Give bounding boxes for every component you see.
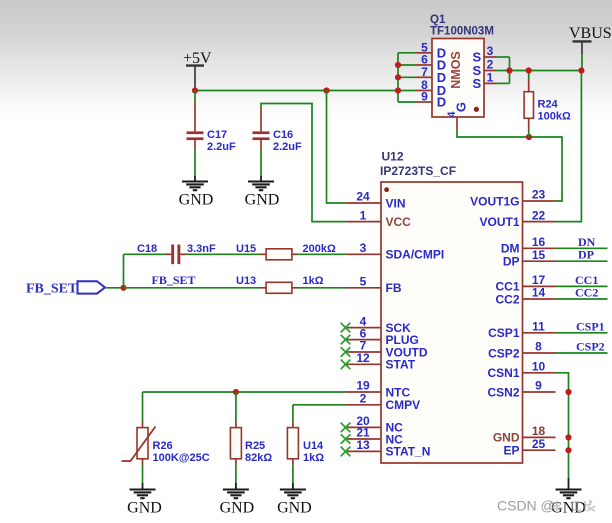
junction EP pin xyxy=(565,447,571,453)
svg-text:CC2: CC2 xyxy=(495,292,519,306)
wire VIN branch xyxy=(327,91,347,204)
svg-text:200kΩ: 200kΩ xyxy=(303,243,336,255)
wire R26 to GND xyxy=(142,465,144,483)
svg-text:U12: U12 xyxy=(382,150,404,164)
wire CC2 net xyxy=(556,286,608,300)
U12 pin 25 EP xyxy=(503,437,555,458)
U12 pin 21 NC xyxy=(346,426,403,447)
svg-text:S: S xyxy=(473,76,482,91)
wire FB_SET branch up xyxy=(123,254,125,287)
junction +5V xyxy=(192,87,198,93)
wire U15 to pin3 xyxy=(298,253,346,255)
U12 pin 11 CSP1 xyxy=(488,320,555,341)
svg-text:1kΩ: 1kΩ xyxy=(303,275,324,287)
wire Q1 drain bus xyxy=(398,53,416,102)
junction VBUS xyxy=(578,67,584,73)
svg-text:13: 13 xyxy=(356,438,370,452)
svg-text:IP2723TS_CF: IP2723TS_CF xyxy=(380,164,456,178)
svg-text:2.2uF: 2.2uF xyxy=(273,141,302,153)
U12 pin 1 VCC xyxy=(346,208,411,229)
svg-text:2: 2 xyxy=(487,58,494,72)
U12 pin 6 PLUG xyxy=(346,326,419,347)
svg-text:8: 8 xyxy=(535,340,542,354)
resistor U15 200k xyxy=(236,243,336,260)
power VBUS symbol xyxy=(569,25,612,54)
svg-text:U15: U15 xyxy=(236,243,256,255)
wire C18 to U15 xyxy=(187,253,261,255)
svg-text:FB_SET: FB_SET xyxy=(26,282,78,297)
svg-text:5: 5 xyxy=(360,275,367,289)
U12 pin 10 CSN1 xyxy=(487,360,555,381)
U12 pin 8 CSP2 xyxy=(488,340,555,361)
svg-text:100K@25C: 100K@25C xyxy=(153,452,210,464)
svg-text:3: 3 xyxy=(487,44,494,58)
capacitor C17 2.2uF xyxy=(187,91,237,154)
svg-text:U14: U14 xyxy=(303,440,324,452)
svg-text:82kΩ: 82kΩ xyxy=(245,452,272,464)
wire VBUS down to VOUT1 xyxy=(556,54,583,222)
wire U14 to GND xyxy=(292,465,294,483)
U12 pin 9 CSN2 xyxy=(487,379,555,400)
wire to C18 xyxy=(124,253,166,255)
svg-text:CMPV: CMPV xyxy=(386,398,421,412)
svg-text:16: 16 xyxy=(532,235,546,249)
svg-text:DP: DP xyxy=(578,248,594,262)
svg-text:CSP2: CSP2 xyxy=(488,346,520,360)
svg-text:D: D xyxy=(437,95,446,110)
svg-text:2: 2 xyxy=(360,392,367,406)
svg-text:9: 9 xyxy=(421,90,428,104)
resistor U13 1k xyxy=(236,275,324,293)
svg-text:DP: DP xyxy=(503,255,520,269)
wire C17 to GND xyxy=(194,150,196,176)
junction R24 bottom xyxy=(526,134,532,140)
U12 pin 3 SDA/CMPI xyxy=(346,241,444,262)
svg-text:VIN: VIN xyxy=(386,196,406,210)
junction GND pin xyxy=(565,434,571,440)
svg-text:FB: FB xyxy=(386,281,402,295)
svg-text:DM: DM xyxy=(501,242,520,256)
svg-text:1: 1 xyxy=(487,71,494,85)
ground GND under C16 xyxy=(245,176,280,208)
svg-text:U13: U13 xyxy=(236,275,256,287)
wire DN net xyxy=(556,235,608,249)
svg-text:G: G xyxy=(454,102,469,112)
svg-text:GND: GND xyxy=(179,191,214,208)
junction Q1 source xyxy=(506,67,512,73)
wire C16 to GND xyxy=(260,150,262,176)
Q1 pin 2 xyxy=(484,58,496,72)
svg-text:22: 22 xyxy=(532,208,546,222)
U12 pin 5 FB xyxy=(346,275,402,296)
wire CMPV net xyxy=(293,405,346,421)
U12 pin 2 CMPV xyxy=(346,392,420,413)
svg-text:CSP2: CSP2 xyxy=(576,340,605,354)
wire DP net xyxy=(556,248,608,262)
svg-text:R24: R24 xyxy=(538,99,559,111)
wire CSN bus to GND xyxy=(556,373,569,478)
junction VIN branch xyxy=(323,87,329,93)
wire port to U13 xyxy=(124,287,261,289)
svg-text:14: 14 xyxy=(532,286,546,300)
svg-text:VOUT1: VOUT1 xyxy=(479,215,519,229)
thermistor R26 100K@25C xyxy=(122,392,210,465)
svg-text:C16: C16 xyxy=(273,129,293,141)
svg-text:C17: C17 xyxy=(207,129,227,141)
svg-text:DN: DN xyxy=(578,235,596,249)
no-connect X pins NC NC STAT_N xyxy=(341,423,351,457)
U12 pin 12 STAT xyxy=(346,351,416,372)
Q1 pin 7 xyxy=(416,65,432,79)
Q1 pin 4 gate xyxy=(446,111,458,129)
Q1 pin 5 xyxy=(416,40,432,54)
svg-text:CSP1: CSP1 xyxy=(488,326,520,340)
wire R25 to GND xyxy=(235,465,237,483)
svg-text:NMOS: NMOS xyxy=(449,51,463,89)
svg-text:12: 12 xyxy=(356,351,370,365)
svg-text:R25: R25 xyxy=(245,440,265,452)
Q1 pin 9 xyxy=(416,90,432,104)
svg-text:GND: GND xyxy=(277,499,312,516)
svg-text:CC2: CC2 xyxy=(575,286,598,300)
U12 pin 7 VOUTD xyxy=(346,339,428,360)
svg-text:STAT_N: STAT_N xyxy=(386,445,431,459)
svg-text:GND: GND xyxy=(127,499,162,516)
U12 pin 16 DM xyxy=(501,235,556,256)
watermark CSDN xyxy=(497,498,595,514)
wire C16 to VCC xyxy=(261,104,346,222)
ground GND bottom right xyxy=(551,478,586,516)
ground GND under C17 xyxy=(179,176,214,208)
svg-text:25: 25 xyxy=(532,437,546,451)
svg-text:3.3nF: 3.3nF xyxy=(187,243,216,255)
U12 pin 18 GND xyxy=(493,424,556,445)
svg-text:STAT: STAT xyxy=(386,358,416,372)
wire port to junction xyxy=(105,287,124,289)
U12 pin 19 NTC xyxy=(346,379,410,400)
wire CSP2 net xyxy=(556,340,608,354)
U12 pin 14 CC2 xyxy=(495,286,555,307)
ground GND under R26 xyxy=(127,483,162,516)
svg-text:1: 1 xyxy=(360,208,367,222)
svg-text:24: 24 xyxy=(356,190,370,204)
svg-text:FB_SET: FB_SET xyxy=(152,273,196,287)
svg-text:C18: C18 xyxy=(137,243,157,255)
svg-text:4: 4 xyxy=(446,111,458,118)
svg-text:3: 3 xyxy=(360,241,367,255)
svg-text:9: 9 xyxy=(535,379,542,393)
Q1 pin 8 xyxy=(416,78,432,92)
junction Q1 pin6 xyxy=(395,62,401,68)
U12 pin 23 VOUT1G xyxy=(470,188,555,209)
U12 pin 17 CC1 xyxy=(495,273,555,294)
U12 pin 20 NC xyxy=(346,414,403,435)
Q1 pin 1 xyxy=(484,71,496,85)
svg-text:GND: GND xyxy=(220,499,255,516)
svg-text:Q1: Q1 xyxy=(430,14,446,26)
U12 pin 13 STAT_N xyxy=(346,438,430,459)
svg-text:VOUT1G: VOUT1G xyxy=(470,194,519,208)
svg-text:11: 11 xyxy=(532,320,545,334)
svg-text:7: 7 xyxy=(421,65,428,79)
wire U13 to pin5 xyxy=(298,287,346,289)
U12 pin 4 SCK xyxy=(346,314,411,335)
resistor R25 82k xyxy=(230,392,272,465)
Q1 pin 3 xyxy=(484,44,496,58)
junction Q1 pin8 rail xyxy=(395,87,401,93)
svg-text:GND: GND xyxy=(245,191,280,208)
junction R24 top xyxy=(526,67,532,73)
svg-text:2.2uF: 2.2uF xyxy=(207,141,236,153)
Q1 pin 6 xyxy=(416,53,432,67)
svg-text:SDA/CMPI: SDA/CMPI xyxy=(386,248,445,262)
transistor Q1 TF100N03M NMOS xyxy=(430,14,494,117)
resistor U14 1k xyxy=(287,421,324,465)
port FB_SET xyxy=(26,281,105,296)
wire CSP1 net xyxy=(556,319,608,333)
ground GND under U14 xyxy=(277,483,312,516)
svg-text:10: 10 xyxy=(532,360,546,374)
svg-text:23: 23 xyxy=(532,188,546,202)
wire +5V rail to Q1 xyxy=(195,90,398,92)
svg-text:100kΩ: 100kΩ xyxy=(538,111,571,123)
ground GND under R25 xyxy=(220,483,255,516)
junction R25 top xyxy=(233,389,239,395)
U12 pin 24 VIN xyxy=(346,190,406,211)
svg-text:CSP1: CSP1 xyxy=(576,319,605,333)
svg-text:1kΩ: 1kΩ xyxy=(303,452,324,464)
svg-text:15: 15 xyxy=(532,248,546,262)
wire gate to R24 and VOUT1G xyxy=(457,129,562,201)
resistor R24 100k xyxy=(524,71,571,138)
svg-text:VBUS: VBUS xyxy=(569,25,612,42)
junction Q1 pin7 xyxy=(395,74,401,80)
svg-text:TF100N03M: TF100N03M xyxy=(430,26,494,38)
op-amp U12 IP2723TS_CF xyxy=(380,150,523,464)
svg-text:VCC: VCC xyxy=(386,215,412,229)
svg-text:R26: R26 xyxy=(153,440,173,452)
U12 pin 15 DP xyxy=(503,248,556,269)
junction CSN2 xyxy=(565,389,571,395)
svg-text:CSN1: CSN1 xyxy=(487,366,519,380)
capacitor C18 3.3nF xyxy=(137,243,216,264)
U12 pin 22 VOUT1 xyxy=(479,208,555,229)
wire CC1 net xyxy=(556,273,608,287)
wire Q1 source bus xyxy=(496,57,581,83)
no-connect X pins SCK PLUG VOUTD STAT xyxy=(341,323,351,369)
svg-text:CSN2: CSN2 xyxy=(487,385,519,399)
svg-text:EP: EP xyxy=(503,444,519,458)
power +5V symbol xyxy=(183,50,212,91)
capacitor C16 2.2uF xyxy=(253,108,303,153)
junction FB_SET xyxy=(120,285,126,291)
svg-text:CSDN @: CSDN @ xyxy=(497,498,555,514)
wire NTC net xyxy=(143,391,347,393)
